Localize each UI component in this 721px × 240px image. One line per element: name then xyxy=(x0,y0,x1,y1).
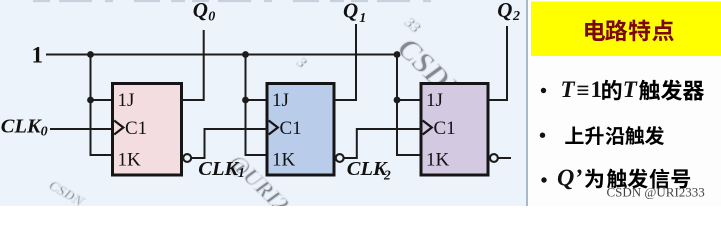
net label CLK1 xyxy=(198,158,245,181)
svg-text:T: T xyxy=(623,77,638,102)
wire: Q-bar2 output stub xyxy=(498,157,511,159)
svg-text:1K: 1K xyxy=(118,150,142,171)
bullet text: Q’为触发信号 xyxy=(557,165,690,191)
svg-text:1K: 1K xyxy=(272,150,296,171)
side panel background xyxy=(528,0,721,206)
svg-text:C1: C1 xyxy=(280,118,302,139)
bullet dot 2 xyxy=(540,133,545,138)
wire: CLK0 input to FF1 C1 xyxy=(50,128,113,130)
node: rail junction dot 2 xyxy=(242,51,249,58)
wire: 1K input wire FF2 xyxy=(245,154,268,156)
wire: Q-bar1 to CLK2 input of next FF xyxy=(344,129,422,158)
watermark (faint diagonal, decorative) xyxy=(46,14,493,217)
svg-text:Q: Q xyxy=(497,0,512,22)
panel header yellow box xyxy=(531,2,721,57)
svg-text:CLK: CLK xyxy=(347,158,388,180)
net label Q0 xyxy=(193,0,216,24)
svg-text:1J: 1J xyxy=(118,90,135,111)
svg-text:CLK: CLK xyxy=(1,116,42,138)
net label CLK0 xyxy=(1,116,48,140)
svg-text:1J: 1J xyxy=(272,90,289,111)
clock edge chevron of U2 xyxy=(269,121,278,135)
svg-text:1: 1 xyxy=(359,11,366,26)
wire: 1J input wire FF3 xyxy=(397,99,422,101)
net label CLK2 xyxy=(347,158,391,183)
svg-text:1K: 1K xyxy=(426,150,450,171)
clock edge chevron of U1 xyxy=(114,121,123,135)
wire: Q0 output from U1 xyxy=(181,30,204,100)
flip-flop U3 (JK flip-flop box) xyxy=(421,84,488,176)
svg-text:2: 2 xyxy=(383,168,391,183)
svg-text:1J: 1J xyxy=(426,90,443,111)
wire: 1J input wire FF1 xyxy=(91,99,114,101)
wire: Q2 output from U3 xyxy=(488,26,508,100)
wire: feed vertical to FF3 J/K xyxy=(396,55,398,156)
svg-text:0: 0 xyxy=(208,9,215,24)
svg-text:2: 2 xyxy=(512,9,520,24)
node: rail junction dot 1 xyxy=(87,51,94,58)
inverting bubble (Q-bar output) of U2 xyxy=(336,154,344,162)
net label Q1 xyxy=(343,0,366,26)
inverting bubble (Q-bar output) of U1 xyxy=(183,154,191,162)
flip-flop U1 (JK flip-flop box) xyxy=(113,84,182,176)
flip-flop U2 (JK flip-flop box) xyxy=(267,84,334,176)
svg-text:0: 0 xyxy=(41,125,48,140)
bullet text: 上升沿触发 xyxy=(565,126,664,145)
bullet dot 3 xyxy=(541,177,546,182)
svg-text:Q’: Q’ xyxy=(557,165,582,191)
svg-text:≡: ≡ xyxy=(577,78,590,103)
clock edge chevron of U3 xyxy=(423,121,432,135)
wire: 1J input wire FF2 xyxy=(246,99,268,101)
wire: "1" rail horizontal xyxy=(46,54,397,56)
wire: feed vertical to FF2 J/K xyxy=(245,55,247,156)
svg-text:1: 1 xyxy=(591,77,603,102)
wire: 1K input wire FF1 xyxy=(90,154,114,156)
panel divider line xyxy=(526,0,528,206)
bullet text: T≡1的T触发器 xyxy=(561,77,705,103)
inverting bubble (Q-bar output) of U3 xyxy=(490,154,498,162)
svg-text:CLK: CLK xyxy=(198,158,239,180)
svg-text:1: 1 xyxy=(238,166,245,181)
cropped text row at top edge (decorative) xyxy=(33,0,433,2)
net label Q2 xyxy=(497,0,520,24)
svg-text:Q: Q xyxy=(343,0,358,23)
svg-text:CSDN @URI2333: CSDN @URI2333 xyxy=(607,185,705,200)
wire: Q1 output from U2 xyxy=(334,24,357,100)
panel title 电路特点 xyxy=(585,20,674,42)
node: rail junction dot 3 xyxy=(394,51,401,58)
bullet dot 1 xyxy=(541,88,546,93)
wire: 1K input wire FF3 xyxy=(396,154,422,156)
node: 1J branch junction dot FF3 xyxy=(394,97,401,104)
svg-text:Q: Q xyxy=(193,0,208,22)
node: 1J branch junction dot FF2 xyxy=(242,97,249,104)
svg-text:C1: C1 xyxy=(125,118,147,139)
svg-text:C1: C1 xyxy=(434,118,456,139)
node: 1J branch junction dot FF1 xyxy=(87,97,94,104)
wire: feed vertical to FF1 J/K xyxy=(90,55,92,156)
svg-text:T: T xyxy=(561,77,576,102)
svg-text:1: 1 xyxy=(32,42,44,67)
wire: Q-bar0 to CLK1 input of next FF xyxy=(191,129,267,158)
